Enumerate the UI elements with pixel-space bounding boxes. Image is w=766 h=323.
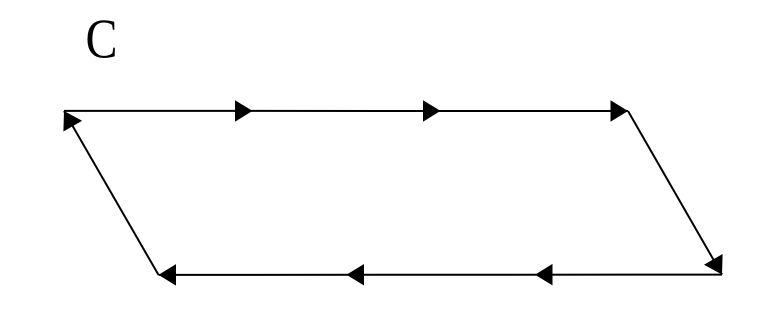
wire top edge <box>64 110 628 112</box>
svg-text:C: C <box>86 8 118 70</box>
arrowhead right diagonal (down-right, at bottom-right corner) <box>704 254 723 275</box>
wire right diagonal <box>628 111 722 275</box>
arrowhead bottom 1 (left) <box>535 264 553 286</box>
arrowhead top 3 (right, at top-right corner) <box>611 100 629 122</box>
arrowhead bottom 3 (left, at bottom-left corner) <box>159 264 177 286</box>
arrowhead top 2 (right) <box>423 100 441 122</box>
wire left diagonal <box>64 111 159 275</box>
arrowhead left diagonal (up-left, at top-left corner) <box>63 111 82 132</box>
arrowhead top 1 (right) <box>235 100 253 122</box>
wire bottom edge <box>159 274 723 276</box>
arrowhead bottom 2 (left) <box>347 264 365 286</box>
